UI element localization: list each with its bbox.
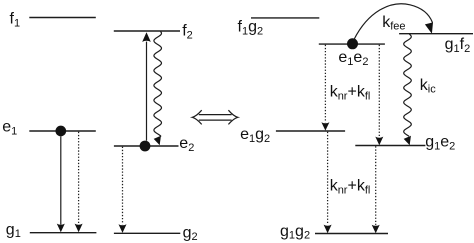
level e2 — [114, 145, 179, 147]
exciton dot on e1 — [55, 126, 66, 137]
level f1 — [29, 17, 96, 19]
svg-text:knr+kfl: knr+kfl — [330, 84, 371, 103]
energy transfer curved arrow kfee — [354, 4, 433, 40]
level g1 — [30, 232, 97, 234]
exciton dot on e2 — [140, 141, 151, 152]
dotted arrow e1e2 to e1g2 — [321, 45, 329, 131]
level g2 — [114, 232, 180, 234]
dotted arrow g1e2 to g1g2 — [372, 146, 380, 233]
dotted arrow e1e2 to g1e2 — [375, 45, 383, 145]
level g1f2 — [399, 33, 473, 35]
level g1g2 — [315, 233, 388, 235]
equivalence double arrow — [192, 110, 238, 124]
level e1 — [29, 130, 96, 132]
level e1e2 — [319, 43, 385, 45]
excitation arrow e2 to f2 — [142, 32, 151, 140]
exciton dot on e1e2 — [347, 38, 358, 49]
level e1g2 — [276, 130, 345, 132]
dotted arrow e1g2 to g1g2 — [324, 132, 332, 233]
internal conversion wavy arrow kic g1f2 to g1e2 — [404, 34, 412, 145]
svg-text:knr+kfl: knr+kfl — [330, 178, 371, 197]
level f1g2 — [251, 17, 319, 19]
nonradiative dotted arrow e1 to g1 — [75, 132, 83, 233]
level f2 — [114, 30, 180, 32]
vibrational wavy arrow f2 to e2 — [154, 32, 162, 146]
radiative decay arrow e1 to g1 — [57, 137, 65, 233]
level g1e2 — [355, 145, 425, 147]
nonradiative dotted arrow e2 to g2 — [119, 147, 127, 233]
